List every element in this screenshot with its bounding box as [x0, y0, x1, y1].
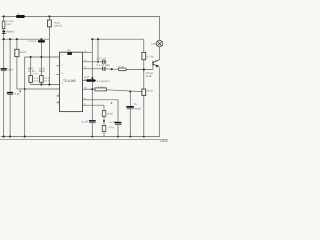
- wire lamp to T2 collector: [159, 47, 161, 60]
- wire x=10.1 chain: [9, 39, 11, 136]
- wire bottom rail: [1, 136, 160, 138]
- pin numbers right side: [84, 50, 87, 105]
- wire rail2 right segment: [92, 38, 144, 40]
- capacitor C7 0.1uF under IC on x=92.3: [89, 120, 96, 122]
- svg-text:9 W: 9 W: [6, 23, 11, 26]
- transistor T2: [153, 60, 159, 67]
- wire 2.2k to right: [107, 90, 142, 92]
- svg-text:4.7 k: 4.7 k: [118, 66, 124, 69]
- wire emitter column down to bottom rail: [158, 67, 160, 136]
- wire pin12 to cap2: [83, 68, 103, 70]
- svg-text:Z 84607: Z 84607: [160, 140, 169, 143]
- IC U1 TCA965 body: [60, 52, 83, 111]
- svg-text:2.2 kΩ: 2.2 kΩ: [98, 86, 105, 89]
- wire pin14 to rail2: [83, 39, 93, 53]
- capacitor C2 electrolytic on x=3.7: [1, 68, 7, 70]
- resistor R6 2.2k horizontal box: [95, 88, 107, 91]
- resistor R7 4.7k horizontal box in base chain: [118, 68, 126, 71]
- svg-text:1N4005: 1N4005: [6, 31, 15, 34]
- resistor R1 4.7k box: [2, 21, 5, 29]
- wire rail2 left segment: [2, 38, 50, 40]
- plus mark for C8: [111, 102, 113, 104]
- svg-text:10 kΩ: 10 kΩ: [20, 51, 27, 54]
- svg-text:Last: Last: [151, 43, 156, 46]
- svg-text:0.1 µF: 0.1 µF: [81, 121, 88, 124]
- wire right column upper (rail corner to lamp): [159, 16, 161, 40]
- svg-text:12 kΩ: 12 kΩ: [146, 89, 153, 92]
- resistor R9 10k box at x=143.8 lower: [142, 89, 146, 96]
- resistor R11 box2 at x=104: [102, 125, 106, 131]
- svg-text:3.3 µF/16 V: 3.3 µF/16 V: [97, 80, 111, 83]
- svg-text:10 µF: 10 µF: [7, 69, 14, 72]
- diode D1 1N4005: [2, 31, 6, 34]
- left pin stubs n.c.: [57, 66, 60, 103]
- wire x=130.3 vertical: [129, 92, 131, 137]
- svg-text:M 4B: M 4B: [146, 75, 152, 78]
- svg-text:T₂: T₂: [155, 59, 157, 62]
- wire top rail: [2, 15, 160, 17]
- svg-text:220 kΩ: 220 kΩ: [54, 25, 62, 28]
- wire x=143.8 chain: [143, 39, 145, 136]
- IC notch: [67, 52, 72, 55]
- svg-text:12 kΩ: 12 kΩ: [107, 113, 114, 116]
- wire pin13 to cap1: [83, 61, 103, 63]
- capacitor C8 on x=118: [115, 122, 122, 124]
- resistor R8 4.7k box at x=143.8: [142, 52, 146, 59]
- wire branch1 x=30.7: [30, 57, 32, 85]
- bottom border line B: [0, 138, 168, 140]
- svg-text:150 µF: 150 µF: [134, 107, 142, 110]
- svg-text:TCA 965: TCA 965: [63, 79, 76, 83]
- capacitor C1 0.47uF black bar: [38, 40, 45, 42]
- potentiometer R2 220k box: [48, 20, 52, 27]
- svg-text:4.7 kΩ: 4.7 kΩ: [147, 56, 154, 59]
- wire1 divider output to IC: [31, 84, 60, 86]
- capacitor C6 3.3uF black bar at pin11: [86, 79, 94, 82]
- wire rail3: [25, 56, 60, 58]
- wire x=24.7 chain: [24, 57, 26, 137]
- resistor R4 branch1 box: [29, 76, 33, 83]
- svg-text:TIC 50: TIC 50: [146, 72, 154, 75]
- wire pin10 to 2.2k: [83, 88, 96, 90]
- svg-text:15 kΩ: 15 kΩ: [39, 70, 45, 73]
- resistor R10 12k box at x=104: [102, 111, 106, 117]
- svg-text:1/2 W: 1/2 W: [39, 68, 46, 71]
- capacitor C9 on x=130.3: [126, 106, 133, 108]
- wire x=98 from rail2 to cap1 wire: [97, 39, 99, 62]
- pin numbers left side: [58, 54, 64, 103]
- wire cap2 to resistor chain: [106, 68, 119, 70]
- wire resistor to T2 base node: [126, 68, 153, 70]
- wire cap1 right stub: [106, 61, 107, 63]
- svg-text:0.47 µF: 0.47 µF: [97, 57, 107, 60]
- lamp LA1: [156, 40, 162, 46]
- wire left chain x=3.7: [3, 16, 5, 136]
- svg-text:10 µF: 10 µF: [84, 75, 90, 78]
- junction dots: [3, 15, 145, 137]
- wire2 from 10k resistor to IC: [17, 88, 60, 90]
- capacitor C3 electrolytic on x=10.1: [7, 92, 13, 94]
- svg-text:NTC: NTC: [28, 68, 33, 71]
- wire pin8 to resistor boxes column: [83, 105, 105, 136]
- svg-text:4.7 µ: 4.7 µ: [109, 126, 115, 129]
- svg-text:0.47 µF: 0.47 µF: [28, 40, 37, 43]
- svg-text:10 µF: 10 µF: [14, 92, 21, 95]
- fuse F1 black body: [16, 15, 25, 18]
- resistor R5 branch2 box: [40, 76, 44, 83]
- wire pin9 to cap3 column: [83, 100, 119, 137]
- wire pot column x=49.4: [48, 16, 50, 84]
- wire branch2 x=41.4: [40, 39, 42, 84]
- resistor R3 10k box: [15, 49, 19, 56]
- svg-text:0.1 µF 63V: 0.1 µF 63V: [97, 64, 111, 67]
- wire T2 base lead: [152, 65, 154, 69]
- capacitor C4 0.47uF plates right of IC: [102, 60, 103, 64]
- capacitor C5 0.47uF plates right of IC lower: [102, 67, 103, 71]
- wire x=92.3 long vertical: [91, 53, 93, 137]
- wire x=16.9 chain: [16, 39, 18, 89]
- small plus mark near wire2: [20, 91, 21, 92]
- wire pin11 stub to cap bar: [83, 80, 87, 82]
